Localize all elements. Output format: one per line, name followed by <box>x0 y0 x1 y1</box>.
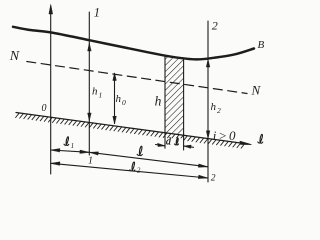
svg-text:0: 0 <box>42 103 47 114</box>
svg-text:2: 2 <box>211 174 216 184</box>
svg-text:h: h <box>92 85 98 97</box>
svg-text:2: 2 <box>137 166 141 174</box>
svg-text:0: 0 <box>122 98 126 107</box>
svg-text:h: h <box>211 101 217 113</box>
svg-text:h: h <box>155 93 162 108</box>
svg-text:2: 2 <box>212 19 218 33</box>
svg-text:B: B <box>258 39 265 51</box>
svg-text:N: N <box>9 49 20 64</box>
svg-text:1: 1 <box>88 156 93 167</box>
svg-text:2: 2 <box>217 106 221 115</box>
svg-text:h: h <box>116 93 122 105</box>
svg-text:1: 1 <box>94 5 100 19</box>
svg-text:1: 1 <box>71 142 75 150</box>
svg-text:N: N <box>251 83 262 98</box>
svg-text:i>0: i>0 <box>213 128 238 143</box>
svg-text:1: 1 <box>99 90 103 99</box>
